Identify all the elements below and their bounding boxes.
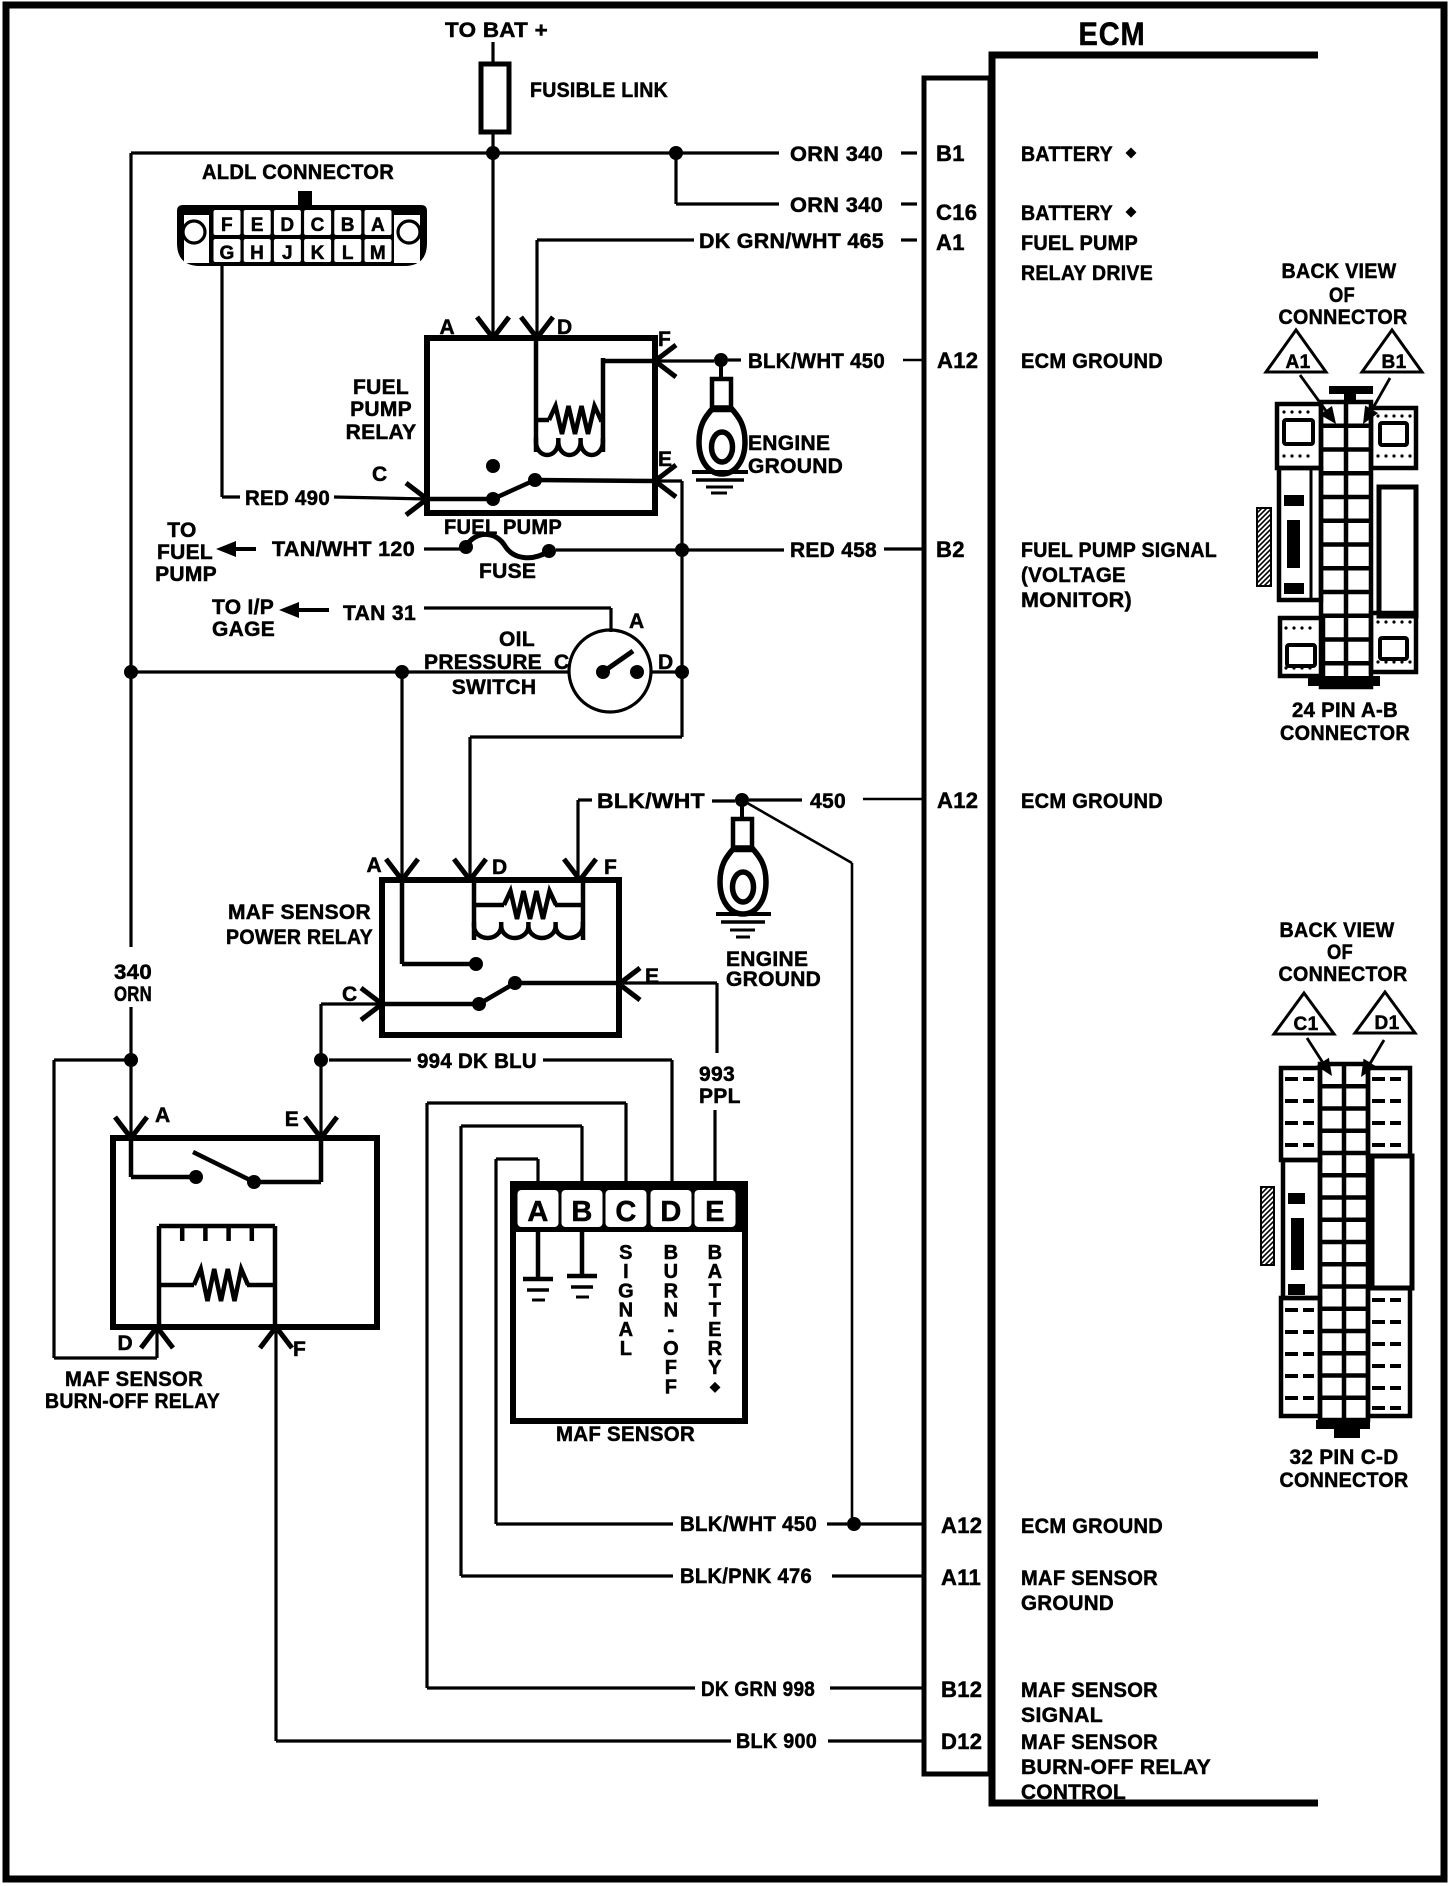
relay contact bbox=[486, 459, 500, 473]
svg-text:OIL: OIL bbox=[499, 628, 535, 651]
svg-text:TO: TO bbox=[167, 519, 196, 542]
pin F bbox=[564, 859, 580, 880]
svg-text:A12: A12 bbox=[937, 348, 978, 373]
svg-text:FUEL: FUEL bbox=[157, 541, 213, 564]
svg-text:A1: A1 bbox=[936, 230, 965, 255]
ground 2 bbox=[716, 912, 771, 916]
svg-text:994 DK BLU: 994 DK BLU bbox=[417, 1050, 537, 1073]
svg-text:D1: D1 bbox=[1375, 1013, 1400, 1034]
ALDL pin H bbox=[244, 239, 271, 262]
svg-text:OF: OF bbox=[1327, 941, 1353, 964]
ALDL pin G bbox=[214, 239, 241, 262]
svg-text:Y: Y bbox=[708, 1357, 722, 1379]
svg-text:F: F bbox=[221, 215, 233, 236]
junction bbox=[486, 146, 500, 160]
svg-text:BACK VIEW: BACK VIEW bbox=[1282, 260, 1397, 283]
wire bbox=[491, 42, 494, 64]
svg-text:A12: A12 bbox=[937, 788, 978, 813]
svg-text:C: C bbox=[615, 1196, 636, 1228]
wire ORN 340 left vertical bbox=[129, 153, 132, 947]
svg-text:BATTERY: BATTERY bbox=[1021, 202, 1113, 225]
pin A bbox=[386, 859, 402, 880]
svg-text:RELAY DRIVE: RELAY DRIVE bbox=[1021, 262, 1153, 285]
ALDL pin C bbox=[304, 210, 331, 235]
svg-text:PPL: PPL bbox=[699, 1085, 741, 1108]
connector label B1 bbox=[1362, 330, 1422, 372]
relay contact bbox=[129, 1138, 134, 1177]
svg-text:D: D bbox=[557, 316, 572, 339]
ALDL pin K bbox=[304, 239, 331, 262]
pin D bbox=[141, 1327, 157, 1348]
svg-text:ORN 340: ORN 340 bbox=[790, 143, 883, 166]
OPS contacts bbox=[596, 665, 610, 679]
svg-text:ECM GROUND: ECM GROUND bbox=[1021, 790, 1163, 813]
svg-text:D: D bbox=[492, 856, 507, 879]
pin F bbox=[655, 345, 676, 361]
svg-text:340: 340 bbox=[114, 961, 152, 984]
svg-text:A: A bbox=[629, 610, 644, 633]
wire BLK/WHT 450 A12 row bbox=[496, 1522, 673, 1525]
svg-text:B: B bbox=[341, 215, 355, 236]
relay coil bbox=[157, 1226, 162, 1325]
svg-text:E: E bbox=[285, 1108, 299, 1131]
svg-text:RELAY: RELAY bbox=[346, 421, 417, 444]
ALDL pin J bbox=[274, 239, 301, 262]
svg-text:D: D bbox=[280, 215, 294, 236]
wire MAF C to DK GRN 998 bbox=[624, 1103, 627, 1184]
wire ground junction to lower BLK/WHT row bbox=[742, 800, 852, 863]
wire ALDL G to RED 490 bbox=[220, 265, 223, 497]
svg-text:ALDL CONNECTOR: ALDL CONNECTOR bbox=[202, 161, 394, 184]
svg-text:FUEL PUMP SIGNAL: FUEL PUMP SIGNAL bbox=[1021, 539, 1217, 562]
svg-text:BLK/WHT: BLK/WHT bbox=[597, 790, 705, 813]
junction bbox=[669, 146, 683, 160]
relay contact bbox=[400, 880, 405, 964]
wire RED 458 B2 row bbox=[556, 548, 676, 551]
svg-text:FUEL PUMP: FUEL PUMP bbox=[1021, 232, 1138, 255]
ALDL pin D bbox=[274, 210, 301, 235]
svg-text:BLK/WHT 450: BLK/WHT 450 bbox=[680, 1513, 817, 1536]
svg-text:A1: A1 bbox=[1286, 352, 1311, 373]
svg-text:BACK VIEW: BACK VIEW bbox=[1280, 919, 1395, 942]
svg-text:D12: D12 bbox=[941, 1729, 982, 1754]
svg-text:BLK/PNK 476: BLK/PNK 476 bbox=[680, 1565, 812, 1588]
svg-text:SWITCH: SWITCH bbox=[452, 676, 537, 699]
wire ORN 340 C16 row bbox=[674, 153, 677, 204]
svg-text:FUEL: FUEL bbox=[353, 376, 409, 399]
wire MAF B to BLK/PNK 476 bbox=[580, 1126, 583, 1184]
ALDL pin A bbox=[365, 210, 392, 235]
junction ORN 340 / burn-off loop bbox=[124, 1053, 138, 1067]
svg-text:SIGNAL: SIGNAL bbox=[1021, 1704, 1103, 1727]
svg-text:CONNECTOR: CONNECTOR bbox=[1280, 1469, 1409, 1492]
ground 1 bbox=[692, 470, 748, 474]
svg-text:B12: B12 bbox=[941, 1677, 982, 1702]
svg-text:C16: C16 bbox=[936, 200, 977, 225]
svg-text:E: E bbox=[251, 215, 264, 236]
svg-text:GAGE: GAGE bbox=[212, 618, 275, 641]
connector arrows bbox=[1300, 375, 1329, 415]
wire 993 PPL bbox=[619, 981, 717, 984]
svg-text:A12: A12 bbox=[941, 1513, 982, 1538]
pin A bbox=[477, 317, 493, 338]
pin F bbox=[260, 1327, 276, 1348]
svg-text:E: E bbox=[705, 1196, 725, 1228]
pin D bbox=[454, 859, 470, 880]
svg-text:PUMP: PUMP bbox=[350, 398, 412, 421]
svg-text:TAN/WHT 120: TAN/WHT 120 bbox=[272, 538, 415, 561]
MAF sensor burn-off relay bbox=[113, 1138, 377, 1327]
svg-text:POWER RELAY: POWER RELAY bbox=[226, 926, 373, 949]
engine ground lug 1 bbox=[719, 363, 723, 379]
svg-text:MONITOR): MONITOR) bbox=[1021, 589, 1132, 612]
svg-text:DK GRN 998: DK GRN 998 bbox=[701, 1678, 815, 1701]
svg-text:B1: B1 bbox=[1382, 352, 1407, 373]
svg-text:A: A bbox=[527, 1196, 548, 1228]
svg-text:BURN-OFF RELAY: BURN-OFF RELAY bbox=[45, 1390, 220, 1413]
svg-text:MAF SENSOR: MAF SENSOR bbox=[556, 1423, 695, 1446]
svg-text:GROUND: GROUND bbox=[726, 968, 821, 991]
connector lock tab bbox=[1261, 1187, 1274, 1265]
svg-text:CONTROL: CONTROL bbox=[1021, 1781, 1126, 1804]
svg-text:ORN 340: ORN 340 bbox=[790, 194, 883, 217]
MAF sensor bbox=[513, 1184, 745, 1421]
svg-text:A: A bbox=[371, 215, 385, 236]
svg-text:CONNECTOR: CONNECTOR bbox=[1279, 963, 1408, 986]
ALDL pin E bbox=[244, 210, 271, 235]
svg-text:(VOLTAGE: (VOLTAGE bbox=[1021, 564, 1126, 587]
wire TAN 31 bbox=[424, 606, 611, 609]
connector label D1 bbox=[1355, 992, 1415, 1033]
svg-text:D: D bbox=[660, 1196, 681, 1228]
wire BLK/PNK 476 A11 row bbox=[461, 1574, 673, 1577]
svg-text:993: 993 bbox=[699, 1063, 735, 1086]
svg-text:L: L bbox=[342, 243, 354, 264]
relay coil bbox=[534, 338, 539, 452]
svg-text:A11: A11 bbox=[941, 1565, 981, 1590]
svg-text:TO I/P: TO I/P bbox=[212, 596, 274, 619]
svg-text:RED 458: RED 458 bbox=[790, 539, 877, 562]
svg-text:BLK/WHT 450: BLK/WHT 450 bbox=[748, 350, 885, 373]
svg-text:C: C bbox=[372, 463, 387, 486]
pin E bbox=[655, 465, 676, 481]
connector lock tab bbox=[1257, 508, 1271, 586]
svg-text:F: F bbox=[665, 1376, 678, 1398]
svg-text:A: A bbox=[155, 1104, 170, 1127]
svg-text:M: M bbox=[370, 243, 386, 264]
wire DK GRN/WHT 465 A1 row bbox=[537, 238, 694, 241]
svg-text:MAF SENSOR: MAF SENSOR bbox=[1021, 1731, 1158, 1754]
wire BLK/WHT 450 lower A12 row bbox=[578, 798, 592, 801]
wire OPS row bbox=[131, 670, 569, 673]
svg-text:ENGINE: ENGINE bbox=[748, 432, 830, 455]
svg-text:MAF SENSOR: MAF SENSOR bbox=[1021, 1679, 1158, 1702]
svg-text:K: K bbox=[311, 243, 325, 264]
relay coil bbox=[472, 880, 477, 940]
svg-text:TO BAT +: TO BAT + bbox=[445, 19, 548, 42]
svg-text:F: F bbox=[293, 1338, 306, 1361]
pin C bbox=[361, 988, 382, 1004]
svg-text:PUMP: PUMP bbox=[155, 563, 217, 586]
connector label C1 bbox=[1274, 993, 1334, 1034]
wire OPS D down to MAF relay D bbox=[680, 481, 683, 737]
wire MAF A to BLK/WHT 450 bbox=[536, 1159, 539, 1184]
wire burn-off F to BLK 900 D12 row bbox=[274, 1327, 277, 1741]
svg-text:FUSIBLE LINK: FUSIBLE LINK bbox=[530, 79, 668, 102]
ALDL pin F bbox=[214, 210, 241, 235]
svg-text:450: 450 bbox=[810, 790, 846, 813]
svg-text:24 PIN A-B: 24 PIN A-B bbox=[1292, 699, 1398, 722]
wire BLK/WHT 450 A12 row bbox=[655, 359, 714, 362]
svg-text:TAN 31: TAN 31 bbox=[343, 602, 416, 625]
wire burn-off relay D loop bbox=[54, 1058, 131, 1061]
pin E bbox=[619, 968, 640, 984]
svg-text:BLK 900: BLK 900 bbox=[736, 1730, 817, 1753]
svg-text:E: E bbox=[658, 448, 672, 471]
ALDL pin L bbox=[334, 239, 361, 262]
bottom tab bbox=[1316, 1420, 1370, 1429]
wire fusible link to relay A bbox=[491, 132, 494, 338]
wire OPS C junction down to MAF relay A bbox=[400, 672, 403, 880]
bottom tab bbox=[1308, 676, 1380, 686]
svg-text:J: J bbox=[282, 243, 293, 264]
svg-text:MAF SENSOR: MAF SENSOR bbox=[1021, 1567, 1158, 1590]
pin A bbox=[115, 1117, 131, 1138]
MAF ground A bbox=[536, 1232, 541, 1278]
svg-text:CONNECTOR: CONNECTOR bbox=[1280, 722, 1410, 745]
engine ground lug 2 bbox=[740, 803, 744, 819]
MAF sensor pin C bbox=[606, 1190, 647, 1227]
svg-text:ECM GROUND: ECM GROUND bbox=[1021, 1515, 1163, 1538]
svg-text:G: G bbox=[219, 243, 234, 264]
svg-text:FUSE: FUSE bbox=[479, 560, 536, 583]
MAF sensor pin E bbox=[695, 1190, 736, 1227]
connector body bbox=[1320, 1064, 1368, 1420]
ALDL pin B bbox=[334, 210, 361, 235]
pin D bbox=[521, 317, 537, 338]
wire DK GRN 998 B12 row bbox=[427, 1686, 695, 1689]
svg-text:A: A bbox=[440, 316, 455, 339]
wire fuel pump relay E bbox=[655, 479, 682, 482]
svg-text:OF: OF bbox=[1329, 284, 1355, 307]
MAF sensor pin B bbox=[562, 1190, 603, 1227]
svg-text:MAF SENSOR: MAF SENSOR bbox=[228, 901, 371, 924]
svg-text:B1: B1 bbox=[936, 141, 965, 166]
svg-text:DK GRN/WHT 465: DK GRN/WHT 465 bbox=[699, 230, 884, 253]
connector arrows bbox=[1307, 1038, 1325, 1066]
MAF sensor pin D bbox=[651, 1190, 692, 1227]
MAF ground B bbox=[580, 1232, 585, 1275]
wire 994 DK BLU bbox=[329, 1058, 411, 1061]
svg-text:F: F bbox=[658, 328, 671, 351]
svg-text:FUEL PUMP: FUEL PUMP bbox=[444, 516, 562, 539]
svg-text:GROUND: GROUND bbox=[1021, 1592, 1114, 1615]
svg-text:C1: C1 bbox=[1294, 1014, 1319, 1035]
svg-text:MAF SENSOR: MAF SENSOR bbox=[65, 1368, 203, 1391]
wire ORN 340 B1 row bbox=[131, 151, 779, 154]
svg-text:GROUND: GROUND bbox=[748, 455, 843, 478]
svg-text:RED 490: RED 490 bbox=[245, 487, 330, 510]
ECM pin column bbox=[924, 78, 990, 1774]
wire MAF relay C down bbox=[321, 1002, 382, 1005]
connector label A1 bbox=[1266, 330, 1326, 372]
svg-text:F: F bbox=[604, 856, 617, 879]
svg-text:32 PIN C-D: 32 PIN C-D bbox=[1290, 1446, 1399, 1469]
pin C bbox=[406, 483, 427, 499]
svg-text:CONNECTOR: CONNECTOR bbox=[1279, 306, 1408, 329]
svg-text:L: L bbox=[620, 1338, 633, 1360]
svg-text:ECM GROUND: ECM GROUND bbox=[1021, 350, 1163, 373]
svg-text:BURN-OFF RELAY: BURN-OFF RELAY bbox=[1021, 1756, 1211, 1779]
svg-text:ECM: ECM bbox=[1079, 16, 1146, 52]
ECM box bbox=[992, 55, 1318, 1803]
fusible link bbox=[481, 64, 509, 132]
svg-text:H: H bbox=[250, 243, 264, 264]
svg-text:B: B bbox=[571, 1196, 592, 1228]
svg-text:C: C bbox=[311, 215, 325, 236]
svg-text:B2: B2 bbox=[936, 537, 965, 562]
svg-text:D: D bbox=[118, 1332, 133, 1355]
svg-text:ORN: ORN bbox=[114, 983, 152, 1006]
connector body bbox=[1329, 386, 1373, 394]
svg-text:BATTERY: BATTERY bbox=[1021, 143, 1113, 166]
MAF sensor pin A bbox=[518, 1190, 559, 1227]
pin E bbox=[305, 1117, 321, 1138]
svg-text:A: A bbox=[367, 854, 382, 877]
wire TAN/WHT 120 bbox=[424, 547, 460, 550]
ALDL pin M bbox=[365, 239, 392, 262]
